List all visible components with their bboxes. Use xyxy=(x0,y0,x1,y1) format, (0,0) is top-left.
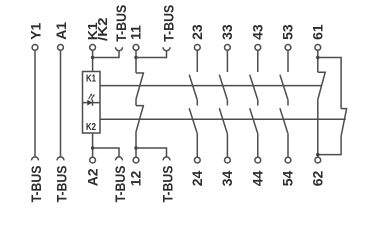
node junction 12 / T-BUS bottom 4 xyxy=(134,146,137,149)
wire junction to T-BUS top A xyxy=(93,51,119,58)
node junction 11 / T-BUS top B xyxy=(134,56,137,59)
terminal A2 xyxy=(84,157,100,186)
contact column 53/54 xyxy=(280,24,296,186)
T-BUS terminal (top A) xyxy=(113,5,129,51)
wire branch right xyxy=(318,58,341,109)
svg-text:T-BUS: T-BUS xyxy=(28,166,44,203)
NO contact upper K1 xyxy=(189,75,197,100)
svg-text:24: 24 xyxy=(189,171,205,187)
svg-text:62: 62 xyxy=(310,171,326,187)
contact column 61/62 (parallel NC) xyxy=(310,24,347,186)
T-BUS terminal (top B) xyxy=(161,5,177,51)
terminal Y1 xyxy=(27,22,43,50)
wire 23 stub xyxy=(196,50,198,72)
terminal 62 xyxy=(315,157,321,163)
wire 11 down xyxy=(135,50,137,73)
svg-text:A2: A2 xyxy=(84,168,100,186)
wire 24 stub xyxy=(196,133,198,157)
svg-text:T-BUS: T-BUS xyxy=(53,166,69,203)
svg-text:K2: K2 xyxy=(86,122,96,133)
terminal 12 xyxy=(128,157,144,186)
terminal A1 xyxy=(53,22,69,51)
wire middle stub 11-12 xyxy=(135,100,137,106)
T-BUS terminal (bottom 3) xyxy=(112,157,128,203)
linkage line upper (K1) xyxy=(100,85,322,87)
T-BUS terminal (bottom 2) xyxy=(53,157,69,203)
relay coil box K1/K2 xyxy=(83,72,101,134)
terminal K1/K2 xyxy=(85,18,110,51)
svg-text:53: 53 xyxy=(280,24,296,40)
svg-text:61: 61 xyxy=(310,24,326,40)
svg-text:K1: K1 xyxy=(86,73,96,84)
contact column 23/24 xyxy=(189,24,205,186)
svg-text:/K2: /K2 xyxy=(95,18,110,42)
wire 12 down xyxy=(135,132,137,157)
svg-text:T-BUS: T-BUS xyxy=(112,166,128,203)
wire A1 to T-BUS xyxy=(60,50,62,157)
NC contact upper (11) K1 xyxy=(136,73,144,100)
node junction 61 branch xyxy=(316,56,319,59)
wire K1/K2 down to coil box xyxy=(92,50,94,71)
svg-text:A1: A1 xyxy=(53,22,69,40)
NO contact lower K2 xyxy=(189,108,197,133)
wire junction to T-BUS bottom 4 xyxy=(136,148,167,157)
svg-text:23: 23 xyxy=(189,24,205,40)
svg-text:33: 33 xyxy=(219,24,235,40)
svg-text:11: 11 xyxy=(128,25,144,40)
svg-text:Y1: Y1 xyxy=(27,22,43,39)
T-BUS terminal (bottom 4) xyxy=(160,157,176,203)
wire branch down-left xyxy=(318,136,341,155)
NC contact left (K1) xyxy=(318,72,325,99)
wire Y1 to T-BUS xyxy=(34,50,36,157)
svg-text:T-BUS: T-BUS xyxy=(160,166,176,203)
linkage line lower (K2) xyxy=(100,118,346,120)
svg-text:T-BUS: T-BUS xyxy=(161,5,177,42)
T-BUS terminal (bottom 1) xyxy=(28,157,44,203)
svg-text:34: 34 xyxy=(219,171,235,187)
svg-text:12: 12 xyxy=(128,171,144,187)
node junction A2 / T-BUS bottom 3 xyxy=(91,146,94,149)
wire middle stub xyxy=(196,99,198,105)
wire A2 from box xyxy=(92,133,94,157)
node junction K1 wire / T-BUS top A xyxy=(91,56,94,59)
wire junction to T-BUS top B xyxy=(136,51,167,58)
NC contact right (K2) xyxy=(341,109,347,136)
LED indicator inside box xyxy=(83,93,100,105)
svg-text:T-BUS: T-BUS xyxy=(113,5,129,42)
svg-text:43: 43 xyxy=(250,24,266,40)
svg-text:54: 54 xyxy=(280,171,296,187)
svg-text:44: 44 xyxy=(250,171,266,187)
NC contact lower (12) K2 xyxy=(136,106,144,133)
contact column 43/44 xyxy=(250,24,266,186)
wire 61 stub xyxy=(317,50,319,72)
wire 62 down xyxy=(317,99,319,157)
node junction 62 xyxy=(316,153,319,156)
terminal 11 xyxy=(128,25,144,50)
terminal 24 xyxy=(194,157,200,163)
contact column 33/34 xyxy=(219,24,235,186)
wire junction to T-BUS bottom 3 xyxy=(93,148,119,157)
